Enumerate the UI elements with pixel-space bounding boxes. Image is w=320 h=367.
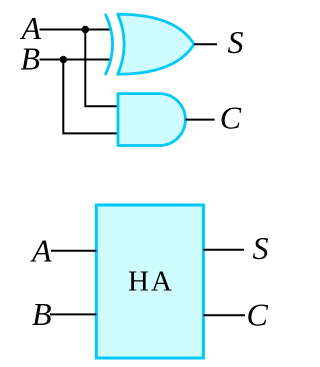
- XOR gate input back curve: [106, 15, 113, 74]
- wire AND output to C: [186, 119, 215, 121]
- wire A into HA block: [51, 250, 96, 252]
- svg-text:A: A: [30, 233, 52, 269]
- wire B into HA block: [50, 313, 96, 315]
- svg-text:B: B: [21, 40, 41, 76]
- wire XOR output to S: [194, 43, 217, 45]
- svg-text:S: S: [253, 230, 269, 266]
- svg-text:B: B: [32, 296, 52, 332]
- svg-text:S: S: [228, 24, 244, 60]
- wire A to XOR input: [40, 29, 112, 31]
- svg-text:HA: HA: [128, 266, 174, 298]
- wire HA block to S: [203, 249, 244, 251]
- svg-text:C: C: [220, 100, 242, 136]
- XOR gate body: [118, 14, 194, 74]
- wire HA block to C: [203, 314, 245, 316]
- wire B to XOR input: [40, 59, 112, 61]
- AND gate body: [118, 94, 185, 146]
- junction dot on node A: [82, 26, 89, 33]
- junction dot on node B: [60, 56, 67, 63]
- half adder block HA: [96, 205, 203, 358]
- wire B branch to AND bottom input: [63, 60, 117, 134]
- svg-text:C: C: [247, 297, 269, 333]
- wire A branch to AND top input: [85, 30, 117, 107]
